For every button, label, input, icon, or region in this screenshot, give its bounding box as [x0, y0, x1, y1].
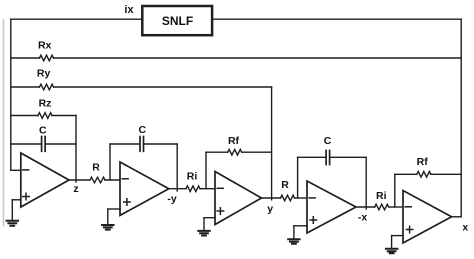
SNLF block — [142, 6, 212, 35]
wire: top feedback line left (node to SNLF input) — [11, 18, 142, 20]
svg-text:Rx: Rx — [38, 39, 52, 51]
svg-text:SNLF: SNLF — [162, 14, 193, 28]
U1 minus mark — [23, 169, 29, 171]
wire: C2 loop left vertical — [109, 144, 111, 180]
wire: z node to op-amp U2 — [69, 179, 90, 181]
svg-text:Rz: Rz — [39, 98, 52, 110]
svg-text:C: C — [324, 135, 332, 147]
resistor Rz — [38, 113, 52, 119]
svg-text:-y: -y — [167, 193, 176, 205]
wire: right vertical from top line down to x output — [460, 19, 462, 217]
resistor Ri2 — [375, 204, 389, 210]
wire: C3 feedback line — [298, 156, 326, 158]
resistor R2 — [281, 195, 295, 201]
wire: Rf1 loop left vertical — [205, 152, 207, 189]
ground G1 stem — [11, 200, 13, 220]
resistor Ry — [40, 84, 54, 90]
wire: C3 loop left vertical — [297, 157, 299, 198]
wire: C2 feedback line — [110, 143, 140, 145]
resistor Ri1 — [186, 186, 200, 192]
ground G4 stem — [293, 226, 295, 239]
ground G5 bars — [386, 249, 397, 254]
wire: left vertical input bus of op-amp U1 — [10, 19, 12, 170]
svg-text:R: R — [281, 179, 289, 191]
svg-text:C: C — [139, 124, 147, 136]
ground G1 bars — [7, 221, 18, 226]
scan artifact line (left edge) — [3, 20, 5, 226]
wire: -y node to op-amp U3 — [169, 188, 186, 190]
svg-text:Ri: Ri — [376, 190, 387, 202]
wire: Rf1 feedback line — [206, 151, 228, 153]
resistor R1 — [90, 177, 105, 183]
wire: Rx line — [11, 57, 40, 59]
wire: C2 loop right vertical to -y node — [176, 144, 178, 191]
U3 plus input stub — [204, 217, 215, 219]
wire: -x node to op-amp U5 — [356, 206, 375, 208]
U2 minus mark — [122, 178, 128, 180]
op-amp U2 — [120, 162, 169, 215]
wire: C3 loop right vertical to -x node — [365, 157, 367, 209]
svg-text:x: x — [462, 221, 468, 233]
U4 plus mark — [310, 217, 316, 223]
svg-text:Ri: Ri — [187, 171, 198, 183]
U5 plus mark — [406, 226, 412, 232]
wire: Ry line — [11, 86, 40, 88]
ground G3 stem — [203, 218, 205, 230]
wire: C1 feedback line — [11, 143, 41, 145]
wire: top feedback line right (SNLF to x node) — [213, 18, 462, 20]
U2 plus mark — [124, 199, 130, 205]
resistor Rf2 — [417, 172, 431, 178]
ground G2 stem — [107, 209, 109, 224]
ground G5 stem — [391, 236, 393, 248]
svg-text:Rf: Rf — [228, 135, 240, 147]
wire: Ry drop to y node — [271, 87, 273, 200]
resistor Rf1 — [228, 149, 242, 155]
svg-text:y: y — [267, 203, 273, 215]
op-amp U3 — [215, 172, 262, 225]
ground G3 bars — [198, 231, 209, 236]
resistor Rx — [40, 55, 54, 61]
ground G2 bars — [102, 225, 113, 230]
svg-text:-x: -x — [358, 212, 367, 224]
U3 plus mark — [217, 208, 223, 214]
ground G4 bars — [288, 239, 299, 244]
capacitor C1 plates — [41, 137, 43, 152]
wire: x output to right vertical — [452, 216, 462, 218]
wire: Rf2 feedback line — [395, 173, 417, 175]
U1 plus input stub — [12, 199, 20, 201]
op-amp U5 — [403, 191, 452, 244]
U4 minus mark — [309, 197, 315, 199]
U1 minus input wire — [11, 169, 21, 171]
wire: Rz line — [11, 115, 38, 117]
svg-text:C: C — [39, 124, 47, 136]
op-amp U1 — [21, 153, 69, 207]
U1 plus mark — [23, 193, 29, 199]
op-amp U4 — [307, 181, 356, 233]
wire: y node to op-amp U4 — [262, 197, 281, 199]
capacitor C2 plates — [139, 137, 141, 152]
svg-text:ix: ix — [124, 4, 134, 16]
U2 plus input stub — [108, 208, 120, 210]
svg-text:z: z — [73, 183, 78, 195]
svg-text:Ry: Ry — [37, 68, 51, 80]
svg-text:R: R — [92, 161, 100, 173]
capacitor C3 plates — [325, 151, 327, 165]
wire: Rf2 loop left vertical — [394, 174, 396, 207]
wire: Rz/C1 loop right vertical to z node — [75, 116, 77, 183]
U4 plus input stub — [294, 225, 307, 227]
svg-text:Rf: Rf — [417, 156, 429, 168]
U5 minus mark — [405, 206, 411, 208]
U5 plus input stub — [392, 235, 403, 237]
U3 minus mark — [217, 187, 223, 189]
